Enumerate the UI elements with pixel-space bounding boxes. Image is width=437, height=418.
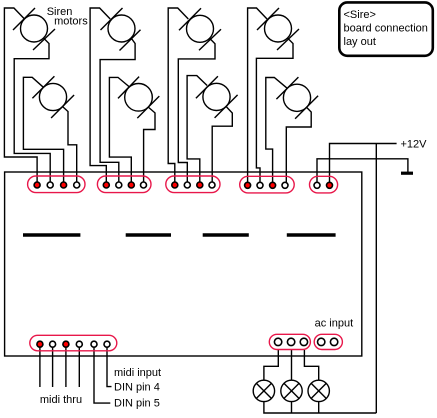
svg-text:ac input: ac input [315, 318, 354, 330]
svg-text:board connection: board connection [344, 23, 428, 35]
svg-text:<Sire>: <Sire> [344, 9, 376, 21]
svg-text:midi thru: midi thru [40, 394, 82, 406]
svg-text:motors: motors [54, 16, 88, 28]
svg-text:DIN pin 5: DIN pin 5 [114, 398, 160, 410]
svg-text:midi input: midi input [114, 367, 161, 379]
svg-text:lay out: lay out [344, 36, 376, 48]
svg-text:DIN pin 4: DIN pin 4 [114, 382, 160, 394]
svg-text:+12V: +12V [401, 139, 428, 151]
